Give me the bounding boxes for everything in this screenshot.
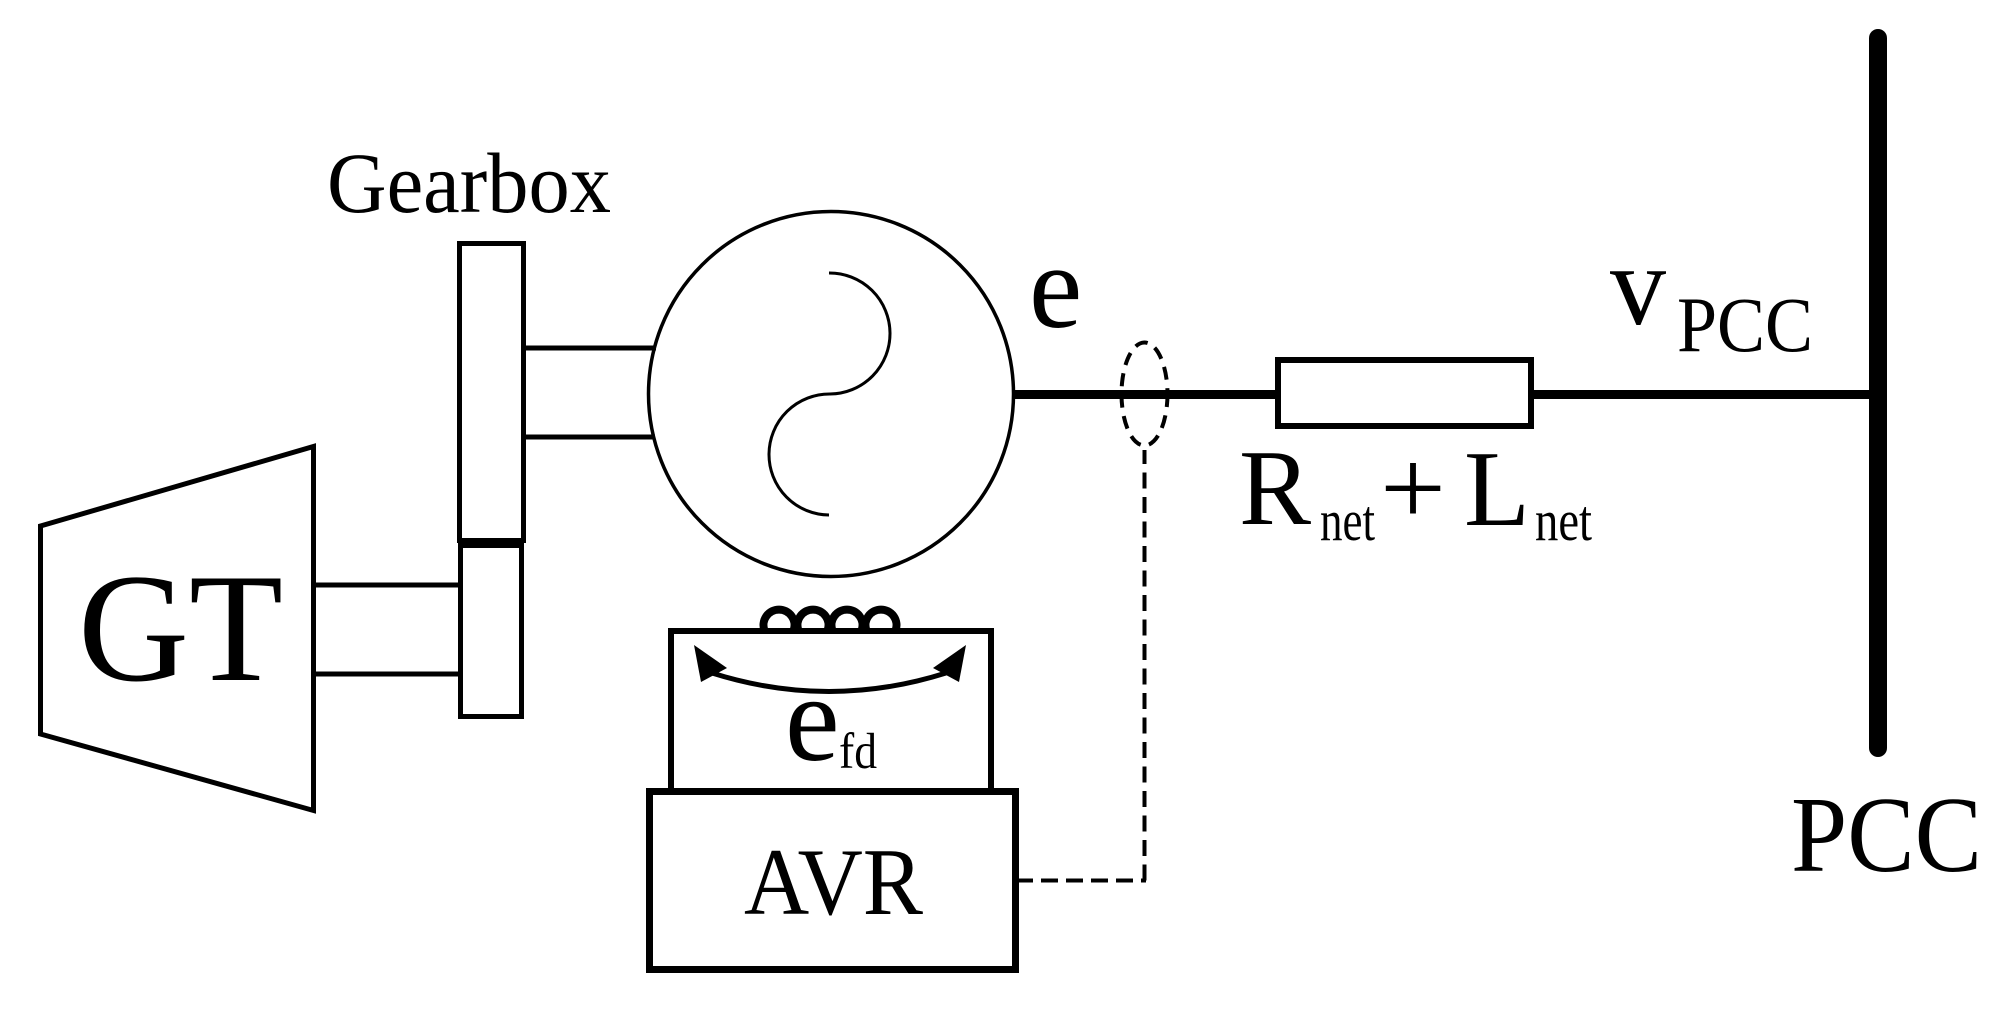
svg-text:net: net	[1320, 488, 1375, 553]
svg-text:R: R	[1239, 429, 1311, 548]
AVR box	[650, 792, 1016, 970]
svg-text:e: e	[1029, 220, 1082, 353]
wire generator to Rnet	[1013, 390, 1277, 399]
rotation arrow right head	[933, 645, 966, 682]
svg-text:PCC: PCC	[1677, 281, 1813, 368]
gearbox lower section	[461, 546, 522, 717]
generator circle	[649, 212, 1014, 577]
rotation arrow arc	[712, 673, 946, 692]
svg-text:L: L	[1464, 430, 1530, 549]
svg-text:e: e	[785, 650, 840, 787]
dashed feedback wire horizontal	[1016, 879, 1146, 883]
field winding coil	[764, 610, 897, 631]
dashed feedback wire vertical	[1143, 450, 1147, 881]
shaft gearbox to generator upper line	[524, 346, 656, 351]
voltage measurement ellipse	[1122, 343, 1168, 446]
field winding box	[671, 631, 991, 792]
rotation arrow left head	[694, 645, 727, 682]
svg-text:GT: GT	[78, 542, 283, 714]
svg-text:AVR: AVR	[744, 829, 924, 935]
shaft GT to gearbox upper line	[313, 583, 460, 588]
svg-text:net: net	[1535, 488, 1592, 553]
svg-text:v: v	[1610, 222, 1666, 349]
svg-text:fd: fd	[839, 724, 877, 780]
svg-text:+: +	[1380, 429, 1446, 548]
shaft GT to gearbox lower line	[313, 672, 460, 677]
wire Rnet to PCC bus	[1534, 390, 1872, 399]
gearbox upper section	[460, 244, 524, 541]
shaft gearbox to generator lower line	[524, 435, 655, 440]
PCC bus bar	[1869, 38, 1887, 748]
resistor Rnet+Lnet box	[1278, 360, 1531, 426]
svg-text:PCC: PCC	[1791, 776, 1982, 895]
generator sine symbol	[769, 273, 890, 515]
gas turbine GT	[41, 447, 314, 811]
svg-text:Gearbox: Gearbox	[327, 135, 611, 231]
